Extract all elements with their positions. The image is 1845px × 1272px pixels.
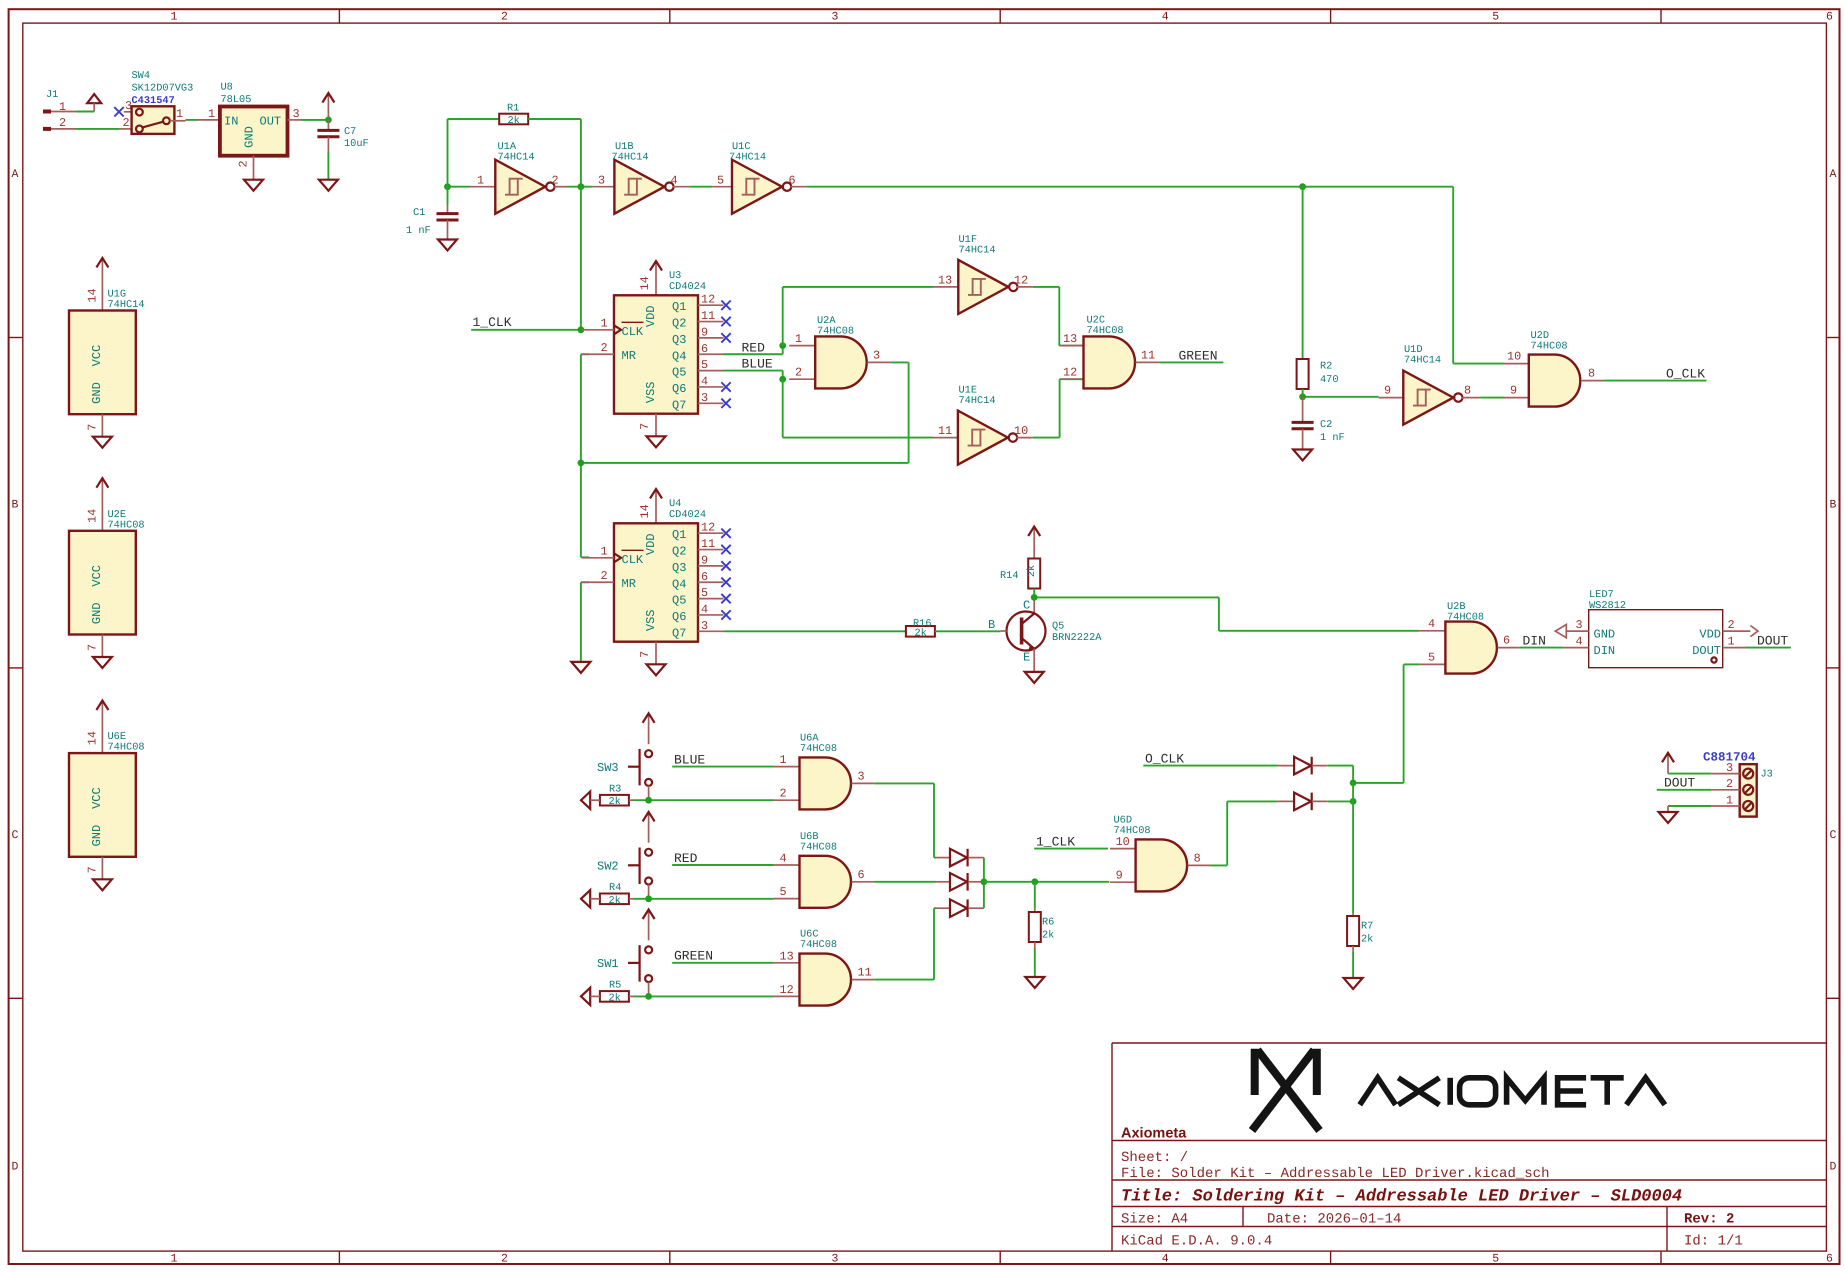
svg-text:7: 7 [86, 424, 100, 431]
wire R4 to gate [629, 898, 633, 900]
junction under SW3 [645, 797, 652, 804]
ground at Q5 emitter [1025, 672, 1044, 683]
wire junction B down to R7 [1352, 801, 1354, 913]
ground at U3 VSS [647, 436, 666, 447]
resistor R2 470 [1297, 359, 1339, 389]
no-connect U3 Q3 [721, 333, 730, 342]
svg-text:VCC: VCC [90, 565, 104, 587]
input arrow at R5 [581, 988, 590, 1005]
wire feedback left vertical [447, 119, 449, 187]
wire oscillator node down to 1_CLK node [580, 187, 582, 330]
ground at C2 [1293, 450, 1312, 461]
svg-text:Axiometa: Axiometa [1121, 1126, 1187, 1142]
junction under SW1 [645, 993, 652, 1000]
capacitor C7 [317, 120, 368, 180]
svg-text:1: 1 [601, 316, 608, 330]
svg-text:14: 14 [638, 504, 652, 518]
diode D3 [950, 899, 967, 917]
svg-text:E: E [1023, 651, 1030, 665]
wire right vertical R1 to oscillator node [580, 119, 582, 187]
svg-text:14: 14 [86, 731, 100, 745]
svg-text:9: 9 [1510, 384, 1517, 398]
svg-text:6: 6 [701, 570, 708, 584]
svg-text:MR: MR [622, 349, 636, 363]
svg-text:11: 11 [701, 537, 715, 551]
svg-text:7: 7 [86, 644, 100, 651]
AND gate U2C 74HC08 [1059, 315, 1160, 389]
svg-text:CLK: CLK [622, 325, 644, 339]
diode D1 [950, 849, 967, 867]
svg-text:1: 1 [208, 107, 215, 121]
svg-text:12: 12 [1014, 274, 1028, 288]
svg-text:12: 12 [701, 521, 715, 535]
svg-text:Q1: Q1 [672, 300, 686, 314]
junction B [1350, 798, 1357, 805]
inverter U1D 74HC14 [1379, 344, 1481, 425]
svg-text:5: 5 [1492, 11, 1499, 24]
wire J1.2 to SW4 pin 2 [76, 128, 119, 130]
wire R2 to U1D input [1302, 389, 1304, 397]
power symbol VCC above SW2 [648, 814, 650, 843]
svg-text:2: 2 [1726, 777, 1733, 791]
junction 1_CLK [578, 326, 585, 333]
svg-text:GND: GND [90, 602, 104, 624]
svg-text:DIN: DIN [1594, 644, 1616, 658]
svg-text:SW1: SW1 [597, 957, 619, 971]
svg-text:14: 14 [86, 509, 100, 523]
svg-text:B: B [12, 499, 19, 512]
wire R16 to Q5 base [935, 630, 1001, 632]
svg-text:4: 4 [1576, 635, 1583, 649]
wire C1/R1 node to U1A input [448, 186, 471, 188]
svg-text:6: 6 [858, 868, 865, 882]
svg-text:C2: C2 [1320, 419, 1332, 431]
wire U1A out to U1B in [567, 186, 593, 188]
svg-text:1: 1 [171, 1253, 178, 1266]
wire U1C out across top to right [806, 186, 1302, 188]
power symbol +V at J1 [87, 94, 101, 111]
wire U3.Q4 to U2A pin 1 [724, 353, 783, 355]
svg-text:R1: R1 [507, 103, 519, 115]
resistor R3 2k [600, 784, 629, 809]
svg-text:GND: GND [243, 126, 257, 148]
svg-text:SK12D07VG3: SK12D07VG3 [132, 83, 194, 95]
svg-text:Rev: 2: Rev: 2 [1684, 1212, 1734, 1228]
svg-text:IN: IN [224, 115, 238, 129]
svg-text:GND: GND [90, 825, 104, 847]
AXIOMETA wordmark [1360, 1078, 1665, 1105]
svg-text:D: D [12, 1161, 19, 1174]
node 1_CLK label [471, 315, 581, 330]
junction R6 [1031, 878, 1038, 885]
no-connect U3 Q2 [721, 317, 730, 326]
svg-text:Q4: Q4 [672, 349, 686, 363]
title block [1112, 1043, 1826, 1251]
ground at R7 [1344, 978, 1363, 989]
wire R1 to right vertical [528, 118, 581, 120]
wire U6B out to diode D2 [874, 881, 936, 883]
svg-text:1: 1 [477, 174, 484, 188]
svg-text:7: 7 [638, 651, 652, 658]
AND gate U2D 74HC08 [1504, 330, 1604, 407]
svg-text:9: 9 [1116, 869, 1123, 883]
svg-text:10: 10 [1116, 835, 1130, 849]
svg-text:CD4024: CD4024 [669, 281, 706, 293]
no-connect U4 Q1 [721, 529, 730, 538]
ground at J3 [1659, 806, 1678, 823]
svg-text:Q1: Q1 [672, 528, 686, 542]
svg-text:2: 2 [601, 341, 608, 355]
inverter U1E 74HC14 [933, 385, 1033, 465]
no-connect U4 Q4 [721, 578, 730, 587]
svg-text:4: 4 [780, 852, 787, 866]
svg-text:1: 1 [176, 107, 183, 121]
no-connect U4 Q3 [721, 561, 730, 570]
svg-text:GREEN: GREEN [674, 949, 713, 964]
svg-text:2: 2 [795, 366, 802, 380]
svg-text:Sheet: /: Sheet: / [1121, 1150, 1188, 1166]
no-connect X on SW4 pin 3 [114, 107, 123, 116]
svg-text:C: C [1830, 829, 1837, 842]
svg-text:2k: 2k [609, 796, 621, 808]
svg-text:C: C [12, 829, 19, 842]
svg-text:6: 6 [1503, 634, 1510, 648]
svg-text:2: 2 [780, 787, 787, 801]
svg-text:13: 13 [780, 949, 794, 963]
connector J3 C881704 [1703, 751, 1773, 817]
svg-text:1: 1 [1728, 635, 1735, 649]
ground at U4 VSS [647, 664, 666, 675]
svg-text:RED: RED [674, 851, 698, 866]
svg-text:78L05: 78L05 [221, 94, 252, 106]
svg-text:2: 2 [237, 160, 251, 167]
wire U3 MR to U2A return junction [581, 353, 589, 355]
wire U6C out to diode D3 [874, 979, 934, 981]
svg-text:74HC14: 74HC14 [498, 152, 535, 164]
power symbol VCC above SW1 [648, 912, 650, 941]
wire feedback top to R1 [448, 118, 500, 120]
svg-text:Q3: Q3 [672, 333, 686, 347]
svg-text:74HC08: 74HC08 [800, 743, 837, 755]
junction A [1350, 780, 1357, 787]
svg-text:4: 4 [1428, 617, 1435, 631]
AND gate U6C 74HC08 [774, 929, 874, 1006]
junction U2A pin2 [779, 376, 786, 383]
wire R6 drop [1034, 882, 1036, 909]
svg-text:D: D [1830, 1161, 1837, 1174]
svg-text:VDD: VDD [644, 533, 658, 555]
power unit U2E [69, 478, 145, 657]
svg-text:MR: MR [622, 577, 636, 591]
svg-text:74HC08: 74HC08 [108, 742, 145, 754]
svg-text:3: 3 [701, 391, 708, 405]
diode D5 [1294, 793, 1311, 811]
svg-text:11: 11 [858, 966, 872, 980]
junction R2/C2/U1D [1299, 393, 1306, 400]
svg-text:2k: 2k [915, 628, 927, 640]
svg-text:J3: J3 [1761, 769, 1773, 781]
inverter U1F 74HC14 [933, 234, 1033, 314]
svg-text:Q7: Q7 [672, 626, 686, 640]
svg-text:GREEN: GREEN [1179, 349, 1218, 364]
switch SW1 [597, 945, 652, 996]
svg-text:6: 6 [789, 174, 796, 188]
svg-text:Q5: Q5 [672, 366, 686, 380]
wire R6 to ground [1034, 948, 1036, 977]
svg-text:13: 13 [938, 274, 952, 288]
svg-text:74HC14: 74HC14 [959, 395, 996, 407]
wire R3 to gate [629, 799, 633, 801]
svg-text:11: 11 [1141, 349, 1155, 363]
svg-text:1: 1 [1726, 793, 1733, 807]
Axiometa logo monogram [1252, 1049, 1320, 1131]
svg-text:6: 6 [701, 342, 708, 356]
node GREEN label (bottom) [672, 949, 774, 964]
svg-text:1: 1 [601, 544, 608, 558]
svg-text:74HC14: 74HC14 [1404, 355, 1441, 367]
svg-text:VCC: VCC [90, 787, 104, 809]
resistor R14 2k [1000, 559, 1040, 589]
switch SW3 [597, 749, 652, 800]
svg-text:DIN: DIN [1523, 634, 1546, 649]
svg-text:O_CLK: O_CLK [1145, 752, 1184, 767]
svg-text:J1: J1 [46, 89, 58, 101]
svg-text:U8: U8 [221, 82, 233, 94]
svg-text:2: 2 [1728, 618, 1735, 632]
wire U2A pin2 node down to U1E [782, 379, 784, 437]
wire diode summing node [983, 858, 985, 909]
junction at U1A input [444, 183, 451, 190]
no-connect U4 Q5 [721, 594, 730, 603]
wire D5 to junction B [1312, 800, 1328, 802]
svg-text:4: 4 [671, 174, 678, 188]
switch SW4 [119, 70, 193, 134]
no-connect U3 Q6 [721, 382, 730, 391]
node 1_CLK label (bottom) [1034, 835, 1108, 850]
svg-text:7: 7 [638, 423, 652, 430]
AND gate U2B 74HC08 [1419, 601, 1520, 674]
svg-text:C7: C7 [344, 126, 356, 138]
svg-text:R5: R5 [609, 980, 621, 992]
svg-text:SW4: SW4 [132, 70, 151, 82]
svg-text:10: 10 [1507, 350, 1521, 364]
wire U2A out down and back to clock bus [891, 361, 909, 363]
svg-text:Date: 2026–01–14: Date: 2026–01–14 [1267, 1212, 1401, 1228]
svg-text:SW2: SW2 [597, 860, 619, 874]
wire U6A out to diode D1 [874, 782, 934, 784]
svg-text:5: 5 [701, 586, 708, 600]
wire U3.Q5 to U2A pin 2 [724, 370, 783, 372]
svg-text:B: B [988, 618, 995, 632]
wire J3 pin1 to ground [1668, 805, 1711, 807]
input arrow at R3 [581, 792, 590, 809]
wire junction down to U4 CLK [580, 463, 582, 557]
wire diode node to U6D pin 9 [984, 881, 1035, 883]
svg-text:BLUE: BLUE [742, 357, 773, 372]
svg-text:2k: 2k [508, 115, 520, 127]
svg-text:12: 12 [1063, 366, 1077, 380]
svg-text:Q6: Q6 [672, 382, 686, 396]
svg-text:Q6: Q6 [672, 610, 686, 624]
svg-text:2: 2 [552, 174, 559, 188]
svg-text:Title: Soldering Kit – Address: Title: Soldering Kit – Addressable LED D… [1121, 1188, 1682, 1207]
svg-text:File: Solder Kit – Addressable: File: Solder Kit – Addressable LED Drive… [1121, 1166, 1549, 1182]
wire U4.Q7 to R16 [724, 630, 906, 632]
wire junction A to B [1352, 783, 1354, 802]
svg-text:VCC: VCC [90, 345, 104, 367]
svg-text:13: 13 [1063, 332, 1077, 346]
svg-text:4: 4 [1162, 1253, 1169, 1266]
svg-text:2: 2 [59, 116, 66, 130]
no-connect U3 Q7 [721, 399, 730, 408]
svg-text:CD4024: CD4024 [669, 509, 706, 521]
svg-text:6: 6 [1826, 11, 1833, 24]
node O_CLK label (top) [1604, 367, 1707, 382]
svg-text:VSS: VSS [644, 381, 658, 403]
svg-text:4: 4 [1162, 11, 1169, 24]
node DOUT label at LED7 [1745, 634, 1791, 649]
wire R2 branch down [1302, 187, 1304, 359]
svg-text:74HC14: 74HC14 [108, 299, 145, 311]
svg-text:3: 3 [832, 1253, 839, 1266]
svg-text:10: 10 [1014, 424, 1028, 438]
svg-text:5: 5 [701, 358, 708, 372]
ground at U6E pin 7 [93, 879, 112, 890]
svg-text:B: B [1830, 499, 1837, 512]
svg-text:CLK: CLK [622, 553, 644, 567]
svg-text:2k: 2k [1026, 565, 1038, 577]
svg-text:1: 1 [171, 11, 178, 24]
svg-text:5: 5 [717, 174, 724, 188]
wire U1F out to U2C pin 13 [1033, 286, 1059, 288]
svg-text:GND: GND [90, 382, 104, 404]
svg-text:BRN2222A: BRN2222A [1052, 632, 1102, 644]
wire U2A pin1 node up to U1F [782, 287, 784, 346]
svg-text:GND: GND [1594, 628, 1616, 642]
svg-text:2k: 2k [1361, 934, 1373, 946]
junction oscillator output node [578, 183, 585, 190]
svg-text:74HC08: 74HC08 [800, 841, 837, 853]
svg-text:1 nF: 1 nF [406, 225, 431, 237]
junction U2A pin1 [779, 342, 786, 349]
svg-text:2: 2 [501, 11, 508, 24]
svg-text:11: 11 [938, 424, 952, 438]
svg-text:2: 2 [123, 116, 130, 130]
svg-text:1: 1 [59, 100, 66, 114]
junction under SW2 [645, 895, 652, 902]
svg-text:5: 5 [780, 885, 787, 899]
svg-text:3: 3 [858, 769, 865, 783]
power unit U1G [69, 258, 145, 437]
resistor R4 2k [600, 882, 629, 907]
power symbol VCC above SW3 [648, 715, 650, 744]
title block text [1121, 1126, 1743, 1250]
connector J1 [43, 89, 76, 130]
capacitor C2 1nF [1292, 397, 1345, 450]
diode D4 [1294, 757, 1311, 775]
ground at U8 pin 2 [244, 180, 263, 191]
power symbol VCC above R14 [1033, 529, 1035, 559]
no-connect U4 Q2 [721, 545, 730, 554]
svg-text:Q7: Q7 [672, 398, 686, 412]
svg-text:3: 3 [1726, 761, 1733, 775]
ground at C7 [319, 180, 338, 191]
wire U1E out to U2C pin 12 [1033, 437, 1060, 439]
wire U6D out to diode D5 [1210, 864, 1227, 866]
svg-text:Q4: Q4 [672, 577, 686, 591]
node GREEN label [1160, 349, 1224, 364]
svg-text:2k: 2k [609, 895, 621, 907]
no-connect U3 Q1 [721, 301, 730, 310]
node O_CLK label (bottom) [1143, 752, 1277, 767]
ground at U2E pin 7 [93, 657, 112, 668]
svg-text:DOUT: DOUT [1664, 776, 1695, 791]
wire J1.1 to power symbol [76, 111, 94, 113]
switch SW2 [597, 848, 652, 899]
svg-text:8: 8 [1464, 384, 1471, 398]
ground at C1 [438, 240, 457, 251]
inverter U1B 74HC14 [593, 141, 691, 214]
svg-text:R2: R2 [1320, 361, 1332, 373]
svg-text:R4: R4 [609, 882, 621, 894]
resistor R16 2k [906, 618, 935, 640]
power symbol VCC above C7 [327, 95, 329, 120]
svg-text:74HC14: 74HC14 [959, 245, 996, 257]
svg-text:3: 3 [701, 619, 708, 633]
svg-text:2: 2 [601, 569, 608, 583]
svg-text:11: 11 [701, 309, 715, 323]
svg-text:14: 14 [86, 288, 100, 302]
junction at R2 branch [1299, 183, 1306, 190]
svg-text:1_CLK: 1_CLK [473, 315, 512, 330]
svg-text:8: 8 [1588, 367, 1595, 381]
svg-text:74HC08: 74HC08 [108, 519, 145, 531]
svg-text:Q5: Q5 [1052, 621, 1064, 633]
svg-text:A: A [12, 168, 19, 181]
svg-text:Q2: Q2 [672, 317, 686, 331]
resistor R7 2k [1347, 913, 1373, 952]
wire R5 to gate [629, 995, 633, 997]
wire U2B pin5 down to diode node [1404, 663, 1420, 665]
svg-text:A: A [1830, 168, 1837, 181]
wire U1D out to U2D pin 9 [1480, 397, 1504, 399]
svg-text:C: C [1023, 599, 1030, 613]
svg-text:R14: R14 [1000, 570, 1019, 582]
wire down to U2D pin 10 [1452, 187, 1454, 364]
power unit U6E [69, 701, 145, 880]
svg-text:7: 7 [86, 866, 100, 873]
AND gate U6A 74HC08 [774, 732, 874, 809]
svg-text:4: 4 [701, 374, 708, 388]
node BLUE label (bottom) [672, 753, 774, 768]
svg-text:1: 1 [780, 753, 787, 767]
power symbol VCC at J3 [1667, 755, 1669, 774]
counter U3 CD4024 [582, 261, 724, 436]
wire U4 MR to ground [581, 581, 589, 583]
svg-text:R7: R7 [1361, 921, 1373, 933]
svg-text:9: 9 [1384, 384, 1391, 398]
ground at U4 MR [571, 662, 590, 673]
regulator U8 78L05 [198, 82, 301, 180]
resistor R6 2k [1029, 909, 1055, 948]
svg-text:C1: C1 [413, 207, 425, 219]
svg-text:KiCad E.D.A. 9.0.4: KiCad E.D.A. 9.0.4 [1121, 1234, 1272, 1250]
junction at C7 [325, 117, 332, 124]
svg-text:Id: 1/1: Id: 1/1 [1684, 1234, 1743, 1250]
node DOUT label at J3 [1657, 776, 1712, 791]
wire SW4.1 to U8.IN [186, 119, 199, 121]
svg-text:O_CLK: O_CLK [1666, 367, 1705, 382]
